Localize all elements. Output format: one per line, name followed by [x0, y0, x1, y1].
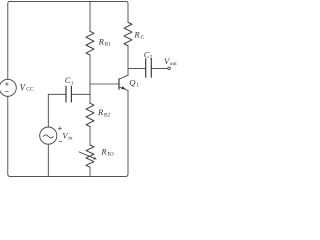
- minus sign Vin: [59, 140, 62, 142]
- wire RB2 to RB3: [89, 127, 91, 145]
- label RB2: [97, 107, 111, 118]
- wire emitter + bottom rail + left rail lower: [8, 90, 128, 176]
- svg-text:1: 1: [136, 83, 139, 89]
- svg-text:R: R: [133, 29, 140, 39]
- label C1: [65, 75, 74, 86]
- wire top rail + left rail upper + RC drop: [8, 1, 128, 79]
- svg-text:R: R: [98, 36, 105, 46]
- wire output branch: [128, 67, 168, 69]
- wire base lead: [90, 83, 119, 85]
- source Vin circle: [40, 127, 57, 144]
- wire Vin vertical lower: [47, 144, 49, 176]
- resistor RB1: [86, 31, 94, 55]
- wire RB1 to RB2: [89, 55, 91, 103]
- svg-text:2: 2: [150, 55, 153, 61]
- label Q1: [129, 77, 139, 88]
- transistor Q1: [119, 75, 128, 79]
- plus sign Vin: [58, 126, 62, 130]
- label C2: [144, 49, 153, 60]
- arrowhead RB3 wiper: [94, 157, 97, 159]
- capacitor C2: [146, 59, 152, 77]
- resistor RB3 (variable): [86, 145, 94, 167]
- resistor RB2: [86, 103, 94, 126]
- svg-text:R: R: [100, 146, 107, 156]
- capacitor C1: [66, 86, 71, 102]
- label Vin: [62, 131, 72, 141]
- label RB3: [100, 146, 114, 157]
- svg-text:B2: B2: [104, 112, 111, 118]
- svg-text:in: in: [68, 135, 72, 141]
- wire Vin vertical upper: [47, 94, 49, 127]
- minus sign VCC: [5, 90, 8, 92]
- label Vout: [164, 56, 177, 67]
- svg-text:B1: B1: [105, 42, 112, 48]
- resistor RC: [124, 22, 132, 45]
- source VCC circle: [0, 79, 16, 96]
- wire RB3 to bottom rail: [89, 167, 91, 176]
- svg-text:Q: Q: [129, 77, 136, 87]
- wire RC bottom to collector: [127, 46, 129, 75]
- plus sign VCC: [5, 82, 62, 141]
- node Vout terminal: [168, 67, 171, 70]
- svg-text:R: R: [97, 107, 104, 117]
- wire RB1 branch from top rail: [89, 1, 91, 31]
- wire C1 row: [48, 93, 90, 95]
- svg-text:1: 1: [71, 80, 74, 86]
- label RB1: [98, 36, 112, 47]
- arrowhead emitter: [121, 86, 125, 89]
- svg-text:out: out: [170, 61, 177, 67]
- svg-text:CC: CC: [26, 86, 34, 92]
- svg-text:B3: B3: [107, 152, 114, 158]
- label RC: [133, 29, 144, 40]
- label VCC: [20, 82, 34, 92]
- svg-text:C: C: [141, 35, 145, 41]
